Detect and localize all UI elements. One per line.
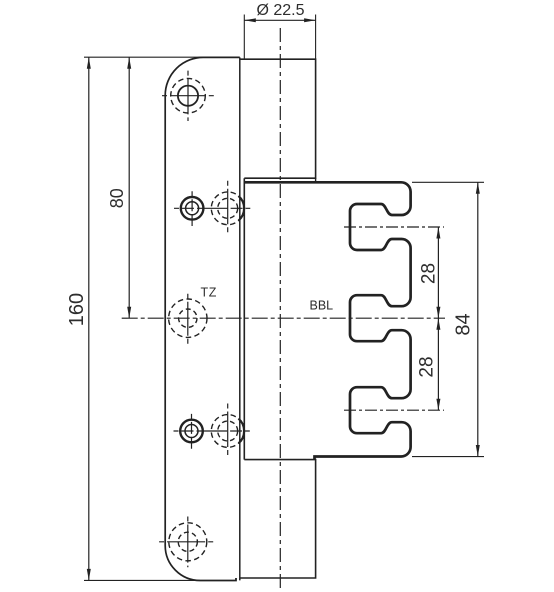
arrow 160 bottom: [87, 569, 91, 581]
top hole dashed circle: [171, 78, 206, 113]
upper breakout solid arc: [238, 196, 244, 221]
dim 84 extension lines: [412, 182, 484, 456]
arrow 28a top: [436, 227, 440, 239]
top hole cross: [162, 71, 214, 121]
top slot centerline: [344, 226, 444, 228]
knuckle vertical centerline: [279, 28, 281, 588]
svg-text:BBL: BBL: [310, 298, 334, 312]
dim 28 line: [437, 227, 439, 410]
svg-text:TZ: TZ: [201, 285, 217, 299]
arrow 22.5 left: [244, 18, 256, 22]
svg-text:28: 28: [419, 263, 440, 284]
arrow 22.5 right: [304, 18, 316, 22]
svg-text:Ø 22.5: Ø 22.5: [256, 2, 304, 19]
frame leaf right edge: [239, 57, 241, 580]
svg-text:160: 160: [66, 293, 88, 326]
bottom knuckle: [240, 460, 316, 578]
bottom slot centerline: [344, 409, 444, 411]
upper dashed circle vertical centerline: [227, 181, 229, 233]
svg-text:84: 84: [453, 313, 475, 335]
arrow 28b bottom: [436, 399, 440, 411]
TZ hole vertical centerline: [187, 294, 189, 344]
lower dashed circles: [211, 415, 244, 448]
top knuckle: [240, 59, 316, 178]
lower breakout solid arc: [238, 419, 244, 444]
arrow 80 top: [127, 57, 131, 69]
arrow 84 top: [476, 182, 480, 194]
upper dashed circles: [211, 192, 244, 225]
arrow 160 top: [87, 57, 91, 69]
dim 22.5 extension lines: [244, 15, 315, 59]
lower dashed circle vertical centerline: [227, 404, 229, 456]
upper ring hole cross: [174, 191, 250, 226]
svg-text:80: 80: [107, 188, 127, 208]
bottom hole cross: [159, 517, 213, 568]
top hole solid circle: [178, 86, 198, 106]
frame leaf plate outline: [165, 57, 240, 580]
bottom hole dashed circles: [169, 523, 207, 561]
door leaf comb outline: [244, 182, 410, 459]
top knuckle step: [315, 178, 317, 182]
arrow 84 bottom: [476, 445, 480, 457]
dim 160 extension lines: [84, 57, 204, 580]
door leaf left edge: [243, 178, 245, 459]
dim 22.5 line: [244, 19, 315, 21]
lower ring hole cross: [174, 414, 250, 449]
bottom step: [236, 578, 240, 581]
dim 80 line: [128, 57, 130, 318]
BBL horizontal centerline: [122, 317, 445, 319]
arrow 28b top: [436, 318, 440, 330]
svg-text:28: 28: [417, 356, 438, 377]
upper ring hole: [181, 197, 204, 220]
dim 84 line: [477, 182, 479, 456]
dim 160 line: [88, 57, 90, 580]
arrow 28a bottom: [436, 307, 440, 319]
arrow 80 bottom: [127, 307, 131, 319]
lower ring hole: [180, 420, 203, 443]
TZ hole dashed circles: [169, 299, 207, 337]
